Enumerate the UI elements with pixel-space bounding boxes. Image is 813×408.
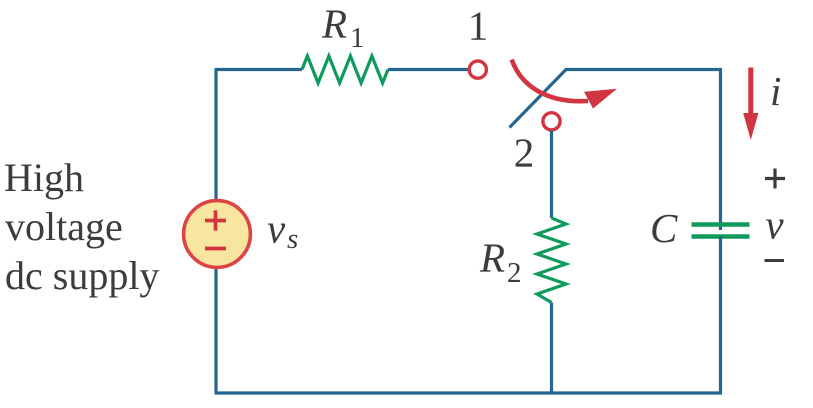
svg-text:s: s	[287, 223, 298, 255]
wire R1 to terminal 1	[388, 68, 469, 71]
svg-text:1: 1	[468, 3, 489, 49]
label plus (capacitor)	[765, 177, 785, 180]
svg-text:i: i	[770, 68, 781, 114]
capacitor C top plate	[692, 222, 750, 227]
svg-text:voltage: voltage	[5, 204, 123, 249]
svg-text:2: 2	[507, 257, 522, 289]
wire R2 to bottom	[550, 303, 553, 394]
switch blade	[510, 70, 567, 128]
svg-text:High: High	[4, 155, 84, 200]
wire terminal 2 down to R2	[550, 131, 553, 219]
wire right vertical upper	[719, 68, 722, 230]
wire right vertical lower	[719, 236, 722, 393]
capacitor C bottom plate	[692, 234, 750, 239]
label minus (capacitor)	[765, 259, 785, 262]
wire top-right horizontal	[565, 68, 722, 71]
voltage source vs	[184, 201, 251, 268]
node 2 terminal	[543, 113, 560, 130]
source polarity minus	[205, 247, 226, 251]
svg-text:dc supply: dc supply	[5, 253, 159, 298]
svg-text:v: v	[267, 206, 286, 252]
svg-text:C: C	[650, 205, 678, 251]
svg-text:2: 2	[514, 130, 535, 176]
svg-text:v: v	[765, 202, 784, 248]
wire bottom horizontal	[215, 391, 723, 394]
svg-text:R: R	[479, 235, 505, 281]
svg-text:1: 1	[350, 22, 365, 54]
switch motion arrow	[512, 60, 588, 102]
source polarity plus	[205, 219, 226, 223]
svg-text:R: R	[321, 1, 347, 47]
resistor R2	[537, 218, 566, 303]
resistor R1	[302, 56, 388, 83]
wire left vertical	[214, 70, 217, 392]
wire top-left horizontal	[215, 68, 303, 71]
current arrow i	[748, 68, 753, 118]
node 1 terminal	[469, 61, 486, 78]
